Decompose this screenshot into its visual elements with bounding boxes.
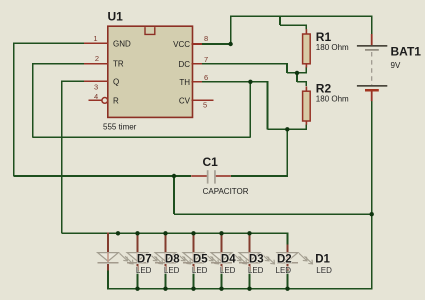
svg-text:555 timer: 555 timer [103, 122, 137, 131]
battery BAT1 top lead [371, 34, 373, 45]
wire to battery negative horizontal [174, 213, 372, 215]
wire jog to R1 vertical [279, 16, 281, 25]
svg-text:R1: R1 [316, 30, 332, 44]
svg-text:LED: LED [164, 266, 180, 275]
wire GND left vertical [13, 43, 15, 177]
LED D6 [107, 233, 109, 253]
svg-text:D7: D7 [137, 253, 152, 265]
junction dot R2 bottom C1 [285, 127, 289, 131]
wire Q pin3 horizontal [62, 80, 85, 82]
pin 4 stub [89, 100, 102, 102]
svg-text:TR: TR [113, 60, 124, 69]
wire TH pin6 horizontal [202, 81, 268, 83]
LED D5 [193, 233, 195, 253]
wire Q vertical [61, 80, 63, 233]
wire LED bottom rail horizontal [107, 288, 372, 290]
resistor R2 body [303, 91, 311, 121]
junction dot C1 left GND [172, 174, 176, 178]
svg-text:D3: D3 [249, 253, 264, 265]
svg-text:3: 3 [94, 82, 98, 91]
svg-text:Q: Q [113, 77, 119, 86]
wire VCC pin8 horizontal [202, 43, 231, 45]
svg-text:U1: U1 [108, 10, 124, 24]
battery BAT1 bottom lead [371, 92, 373, 102]
wire TH to R2 bottom horizontal [268, 129, 308, 131]
svg-text:LED: LED [316, 266, 332, 275]
LED D8 [165, 233, 167, 253]
svg-text:9V: 9V [391, 61, 401, 70]
wire R1 top lead green vertical [306, 25, 308, 29]
pin 8 stub [192, 43, 202, 45]
svg-text:TH: TH [179, 78, 190, 87]
wire battery top green vertical [371, 16, 373, 35]
pin 3 stub [84, 80, 109, 82]
battery BAT1 bottom long plate [357, 85, 387, 87]
svg-text:BAT1: BAT1 [391, 45, 422, 59]
pin 7 stub [192, 63, 202, 65]
svg-text:D2: D2 [277, 253, 292, 265]
svg-text:4: 4 [94, 92, 98, 101]
wire battery bottom green vertical [371, 101, 373, 289]
wire TR pin2 horizontal [33, 63, 85, 65]
wire R2 top green vertical [306, 82, 308, 86]
svg-text:R2: R2 [316, 82, 332, 96]
svg-text:D8: D8 [165, 253, 180, 265]
junction dots LED top rail [116, 231, 120, 235]
wire TH down vertical [267, 81, 269, 129]
resistor R1 leads [306, 29, 308, 34]
svg-text:C1: C1 [203, 155, 219, 169]
svg-text:LED: LED [220, 266, 236, 275]
junction dot pin8 corner [228, 42, 232, 46]
wire GND pin1 horizontal [14, 43, 85, 45]
wire DC to R1R2 node horizontal [287, 72, 307, 74]
wire GND to C1 horizontal [14, 175, 192, 177]
LED D3 [249, 233, 251, 253]
resistor R2 leads [306, 86, 308, 91]
junction dot R1-R2 node [295, 71, 299, 75]
wire C1 right green horizontal [231, 175, 288, 177]
wire DC pin7 horizontal [202, 63, 287, 65]
svg-text:1: 1 [93, 34, 97, 43]
svg-text:CAPACITOR: CAPACITOR [203, 187, 249, 196]
battery BAT1 top long plate [357, 45, 387, 47]
svg-text:D5: D5 [193, 253, 208, 265]
svg-text:LED: LED [192, 266, 208, 275]
svg-text:CV: CV [179, 97, 191, 106]
svg-text:R: R [113, 96, 119, 105]
wire jog to R1 horizontal [280, 24, 307, 26]
pin 1 stub [84, 43, 109, 45]
wire VCC riser vertical [230, 16, 232, 45]
wire LED top rail horizontal [62, 233, 288, 235]
svg-text:180 Ohm: 180 Ohm [316, 43, 349, 52]
pin 4 inversion bubble [102, 98, 108, 104]
wire R2 bottom green vertical [306, 124, 308, 129]
wire node down jog vertical [296, 73, 298, 82]
pin 5 stub [192, 100, 214, 102]
junction dots LED bottom rail [135, 287, 139, 291]
svg-text:D1: D1 [315, 253, 330, 265]
battery BAT1 bottom short plate [365, 89, 379, 92]
junction dot battery negative [370, 212, 374, 216]
capacitor C1 right lead [216, 175, 231, 177]
svg-text:180 Ohm: 180 Ohm [316, 95, 349, 104]
wire TR to TH riser vertical [250, 82, 252, 138]
svg-text:LED: LED [136, 266, 152, 275]
junction dot TR-TH [248, 80, 252, 84]
IC U1 555 timer body [108, 26, 193, 117]
svg-text:DC: DC [178, 60, 190, 69]
wire TR bottom horizontal [33, 137, 251, 139]
LED D7 [137, 233, 139, 253]
svg-text:2: 2 [95, 54, 99, 63]
wire node jog to R2 horizontal [297, 81, 307, 83]
svg-text:7: 7 [204, 55, 208, 64]
battery BAT1 dashed link [371, 52, 373, 85]
wire DC jog down vertical [286, 63, 288, 73]
battery BAT1 top short plate [365, 49, 379, 51]
wire C1-left node down vertical [173, 176, 175, 214]
pin 2 stub [84, 63, 109, 65]
svg-text:D4: D4 [221, 253, 236, 265]
svg-text:GND: GND [113, 40, 131, 49]
wire C1 right riser vertical [287, 129, 289, 176]
LED D2 [287, 233, 289, 253]
pin 6 stub [192, 81, 202, 83]
svg-text:LED: LED [248, 266, 264, 275]
notch at top of U1 [145, 27, 155, 34]
svg-text:6: 6 [204, 73, 208, 82]
svg-text:8: 8 [204, 34, 208, 43]
svg-text:VCC: VCC [173, 40, 190, 49]
LED D4 [221, 233, 223, 253]
svg-text:5: 5 [203, 100, 207, 109]
capacitor C1 left lead [191, 175, 207, 177]
wire VCC top rail horizontal [231, 16, 373, 18]
wire TR vertical [32, 63, 34, 138]
capacitor C1 left plate [207, 170, 209, 183]
capacitor C1 right plate [214, 170, 216, 183]
wire R1 bottom green vertical [306, 67, 308, 73]
resistor R1 body [303, 34, 311, 64]
svg-text:LED: LED [276, 266, 292, 275]
